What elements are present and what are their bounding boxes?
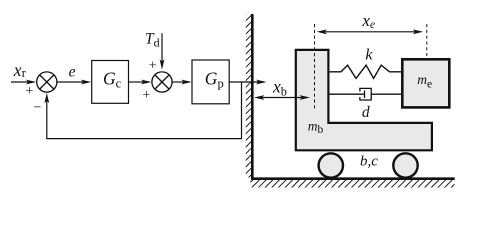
summing junction 2 (152, 72, 172, 92)
spring k (329, 65, 402, 78)
damper rod left (329, 93, 365, 95)
wire Td input (161, 33, 163, 62)
block Gc (92, 61, 129, 104)
wire input x_r (11, 81, 29, 83)
block Gp (192, 60, 229, 104)
svg-text:+: + (149, 58, 157, 73)
dashed center line of me (426, 24, 428, 58)
dashed center line of mb column (314, 24, 316, 110)
mass me (402, 59, 449, 107)
displacement arrow xe (324, 31, 417, 33)
summing junction 1 (37, 72, 57, 92)
wire Gp output to wall (229, 81, 258, 83)
damper rod right (371, 93, 402, 95)
wire feedback path (47, 82, 242, 139)
wall line (251, 14, 254, 180)
displacement arrow xb (261, 97, 304, 99)
wheel right (393, 153, 417, 177)
ground line (251, 177, 455, 180)
svg-text:b,c: b,c (360, 154, 378, 170)
body mb (L-shaped trolley) (296, 50, 432, 150)
svg-text:−: − (33, 101, 41, 116)
svg-text:+: + (25, 84, 33, 99)
wall hatching (246, 14, 251, 178)
wire junction1 to Gc (57, 81, 84, 83)
svg-text:k: k (365, 47, 373, 64)
wheel left (319, 153, 343, 177)
svg-text:d: d (362, 104, 370, 121)
svg-text:+: + (142, 88, 150, 103)
ground hatching (251, 180, 455, 188)
wire Gc to junction 2 (129, 81, 145, 83)
svg-text:e: e (69, 64, 76, 81)
wire junction2 to Gp (172, 81, 184, 83)
damper piston (364, 90, 366, 98)
damper cylinder (360, 88, 371, 100)
